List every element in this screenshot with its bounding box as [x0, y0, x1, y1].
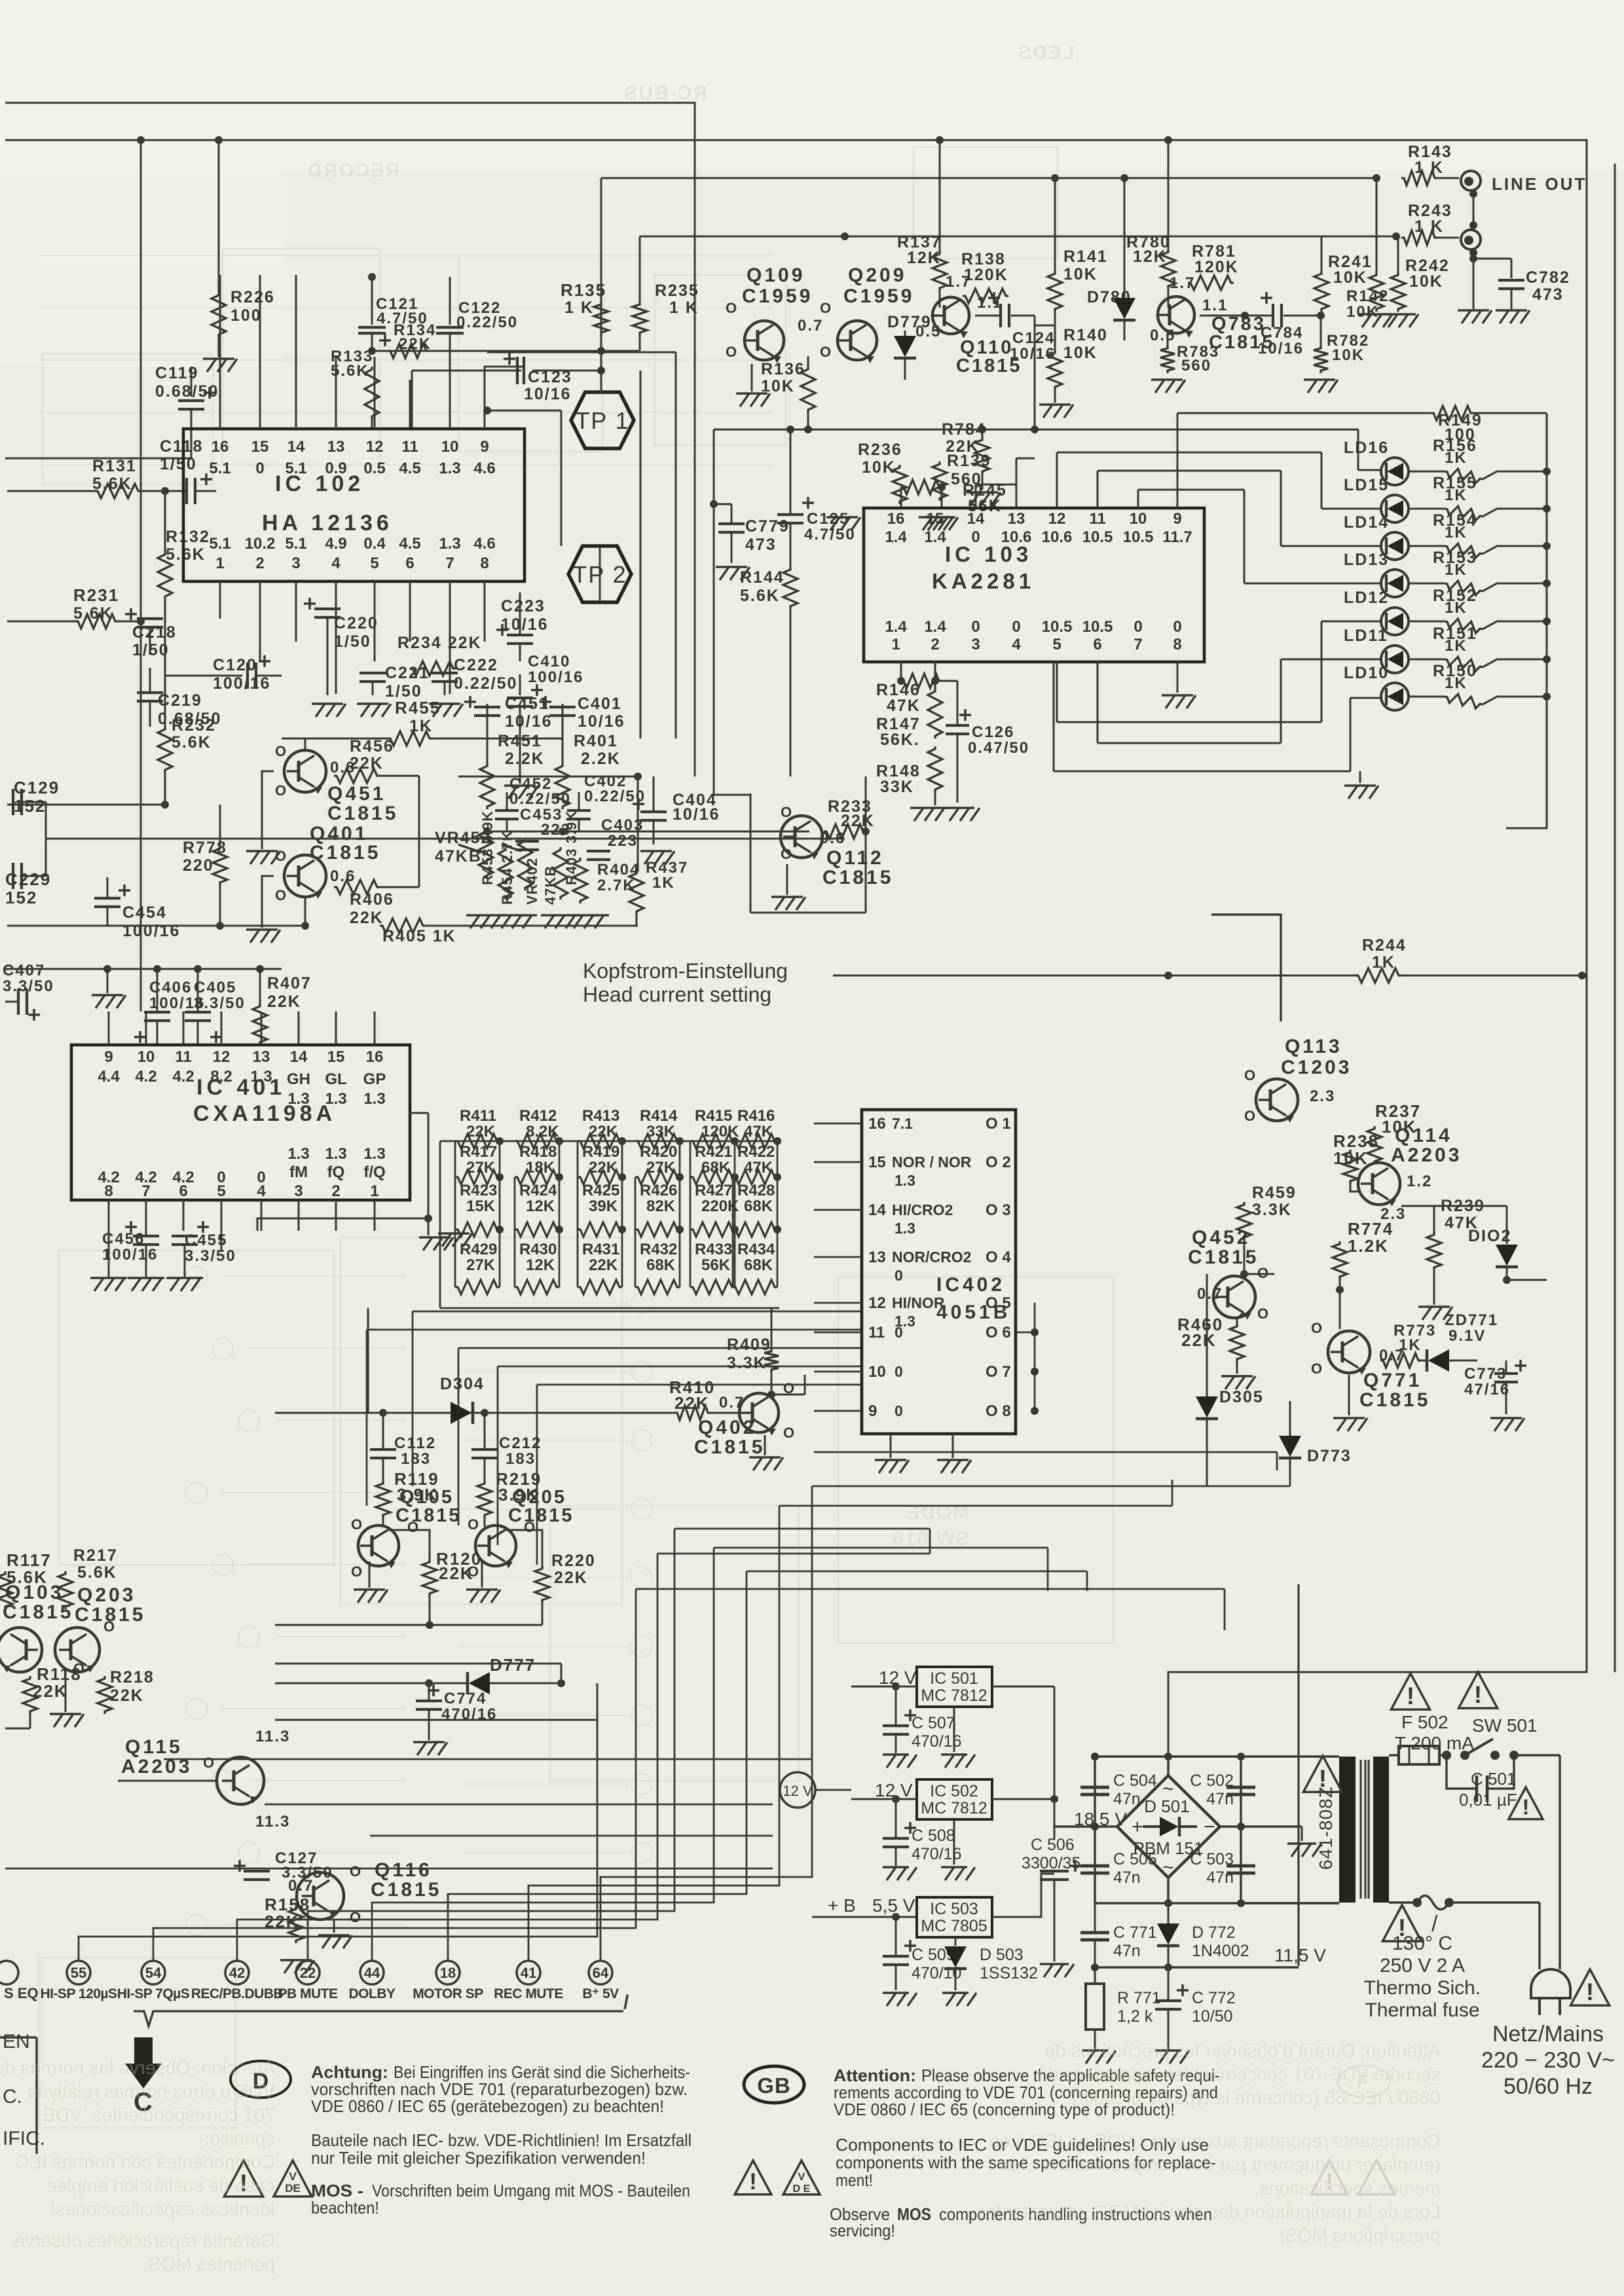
- svg-text:3.3/50: 3.3/50: [3, 977, 54, 995]
- node: [301, 922, 309, 930]
- svg-text:R231: R231: [73, 585, 119, 605]
- wire IC402 left stubs: [814, 1123, 862, 1125]
- svg-text:R407: R407: [267, 974, 312, 993]
- svg-text:13: 13: [868, 1248, 886, 1266]
- svg-text:9.1V: 9.1V: [1449, 1327, 1486, 1345]
- ground: [1359, 784, 1361, 786]
- svg-text:22K: 22K: [350, 754, 384, 773]
- svg-text:R426: R426: [640, 1182, 677, 1199]
- svg-text:1.3: 1.3: [325, 1090, 346, 1108]
- svg-text:C 504: C 504: [1113, 1772, 1157, 1790]
- svg-text:1 K: 1 K: [1414, 217, 1444, 236]
- svg-text:C223: C223: [501, 597, 545, 615]
- wire: [771, 1394, 805, 1396]
- svg-text:0.47/50: 0.47/50: [968, 739, 1029, 757]
- svg-text:LD15: LD15: [1344, 476, 1389, 494]
- wire: [675, 352, 677, 738]
- svg-text:2.7K: 2.7K: [597, 877, 636, 894]
- svg-text:1.7: 1.7: [946, 273, 971, 291]
- svg-text:14: 14: [287, 438, 305, 456]
- wire long bus 2854: [5, 1868, 773, 1870]
- svg-text:C1815: C1815: [1188, 1247, 1259, 1268]
- wire: [865, 776, 867, 913]
- ground: [145, 1277, 147, 1279]
- ground: [326, 702, 328, 704]
- svg-text:REC/PB.DUBB: REC/PB.DUBB: [191, 1986, 284, 2001]
- svg-text:560: 560: [1181, 357, 1211, 374]
- svg-text:REC MUTE: REC MUTE: [494, 1986, 563, 2001]
- connector pin 22: [296, 1961, 320, 1984]
- svg-text:50/60 Hz: 50/60 Hz: [1504, 2074, 1593, 2099]
- wire: [372, 350, 639, 352]
- svg-text:C 772: C 772: [1192, 1989, 1236, 2007]
- svg-text:~: ~: [1162, 1778, 1174, 1800]
- warning triangle pair mid: [735, 2160, 771, 2195]
- svg-text:4.2: 4.2: [172, 1068, 194, 1085]
- ground: [333, 1934, 335, 1936]
- svg-text:Composants repondant aux norme: Composants repondant aux normes VDE ou I…: [990, 2131, 1441, 2152]
- svg-text:MOTOR SP: MOTOR SP: [413, 1986, 483, 2001]
- svg-text:0.6: 0.6: [330, 867, 356, 885]
- node: [161, 487, 169, 495]
- svg-text:R236: R236: [858, 441, 902, 459]
- svg-text:C1203: C1203: [1281, 1057, 1352, 1078]
- svg-text:LD13: LD13: [1344, 551, 1389, 569]
- svg-text:10K: 10K: [862, 458, 896, 477]
- svg-text:1 K: 1 K: [564, 299, 594, 317]
- wire left stub: [5, 458, 46, 460]
- svg-text:14: 14: [290, 1048, 308, 1066]
- svg-text:1.4: 1.4: [924, 618, 946, 636]
- connector pin edge: [0, 1961, 18, 1984]
- wire: [275, 1719, 597, 1721]
- ground: [1167, 2049, 1169, 2051]
- svg-text:C1815: C1815: [310, 842, 380, 864]
- svg-text:10/16: 10/16: [1010, 345, 1056, 363]
- svg-text:10: 10: [868, 1363, 886, 1381]
- svg-text:−: −: [1204, 1816, 1215, 1838]
- svg-text:10.2: 10.2: [245, 535, 276, 553]
- svg-text:55: 55: [71, 1965, 86, 1981]
- svg-text:10/16: 10/16: [578, 712, 625, 731]
- svg-text:R427: R427: [695, 1182, 732, 1199]
- svg-text:O: O: [275, 782, 287, 799]
- svg-text:1.2K: 1.2K: [1348, 1236, 1389, 1256]
- svg-text:22: 22: [300, 1965, 316, 1981]
- svg-text:C 507: C 507: [912, 1714, 955, 1732]
- svg-text:R420: R420: [640, 1143, 677, 1161]
- svg-text:O: O: [351, 1516, 363, 1533]
- svg-text:7.1: 7.1: [892, 1115, 913, 1132]
- svg-text:+: +: [1132, 1816, 1143, 1838]
- svg-text:183: 183: [401, 1450, 431, 1468]
- svg-text:1/50: 1/50: [334, 632, 371, 651]
- svg-text:4.9: 4.9: [325, 535, 346, 553]
- svg-text:NOR / NOR: NOR / NOR: [892, 1154, 972, 1171]
- svg-text:VDE 0860 / IEC 65 (gerätebezog: VDE 0860 / IEC 65 (gerätebezogen) zu bea…: [311, 2096, 664, 2116]
- svg-text:R218: R218: [110, 1668, 155, 1686]
- svg-text:R406: R406: [350, 890, 394, 909]
- svg-text:C 771: C 771: [1113, 1923, 1157, 1942]
- ground: [938, 516, 940, 518]
- svg-text:Bauteile nach IEC- bzw. VDE-Ri: Bauteile nach IEC- bzw. VDE-Richtlinien!…: [311, 2130, 692, 2150]
- svg-text:68K: 68K: [744, 1197, 773, 1215]
- svg-text:5: 5: [370, 555, 378, 572]
- ground: [1166, 378, 1168, 380]
- ground: [64, 1713, 66, 1715]
- ground: [1176, 694, 1178, 696]
- svg-text:47n: 47n: [1113, 1942, 1141, 1960]
- svg-text:C219: C219: [158, 691, 202, 710]
- svg-text:7: 7: [141, 1182, 150, 1200]
- svg-text:C405: C405: [194, 979, 236, 996]
- svg-text:R430: R430: [519, 1241, 557, 1258]
- svg-text:0.4: 0.4: [363, 535, 386, 553]
- transistor Q114: [1358, 1163, 1400, 1205]
- svg-text:1K: 1K: [1445, 524, 1467, 541]
- svg-text:22K: 22K: [350, 909, 384, 927]
- wire: [140, 140, 142, 1011]
- svg-text:MC 7805: MC 7805: [921, 1917, 987, 1935]
- ground: [1053, 1963, 1055, 1965]
- wire bundle staircase: [79, 1761, 597, 1961]
- svg-text:DOLBY: DOLBY: [349, 1986, 396, 2001]
- wire: [851, 1686, 917, 1688]
- svg-text:4.5: 4.5: [399, 535, 420, 553]
- svg-text:C1815: C1815: [396, 1505, 461, 1526]
- svg-text:O 3: O 3: [986, 1201, 1011, 1219]
- svg-text:9: 9: [868, 1402, 877, 1420]
- wire: [1167, 1757, 1169, 1776]
- connector pin 41: [517, 1961, 540, 1984]
- wire mains right: [1559, 1755, 1560, 1969]
- warning triangle fuse: [1391, 1673, 1430, 1709]
- svg-text:Garantia reparaciones observe: Garantia reparaciones observe: [14, 2231, 275, 2251]
- node on bus C: [1051, 174, 1059, 182]
- svg-text:C 508: C 508: [912, 1827, 955, 1845]
- svg-text:R135: R135: [561, 280, 606, 300]
- svg-text:5.1: 5.1: [285, 460, 306, 477]
- wire: [108, 1231, 110, 1277]
- wire horizontals mid: [636, 1588, 1225, 1590]
- wire: [45, 802, 47, 876]
- svg-text:13: 13: [1008, 510, 1025, 528]
- ground: [443, 702, 445, 704]
- svg-text:S EQ: S EQ: [4, 1985, 39, 2001]
- svg-text:8: 8: [1173, 636, 1181, 653]
- ground: [895, 1753, 896, 1755]
- svg-text:1: 1: [215, 555, 224, 572]
- ground: [1373, 313, 1375, 315]
- svg-text:47n: 47n: [1113, 1790, 1141, 1808]
- svg-text:0.7: 0.7: [288, 1877, 314, 1895]
- ground: [1505, 1417, 1507, 1419]
- IC IC501 MC7812: [917, 1667, 992, 1707]
- svg-text:0.68/50: 0.68/50: [158, 710, 221, 728]
- svg-text:D E: D E: [793, 2183, 811, 2195]
- svg-text:R421: R421: [695, 1143, 732, 1161]
- svg-text:10/16: 10/16: [524, 385, 572, 403]
- svg-text:B⁺ 5V: B⁺ 5V: [582, 1986, 619, 2001]
- svg-text:11.3: 11.3: [255, 1813, 290, 1831]
- svg-text:Kopfstrom-Einstellung: Kopfstrom-Einstellung: [583, 959, 788, 983]
- svg-text:10.5: 10.5: [1082, 618, 1113, 636]
- svg-text:R454 2.7K: R454 2.7K: [499, 830, 515, 905]
- svg-text:16: 16: [868, 1115, 886, 1133]
- svg-text:F 502: F 502: [1401, 1712, 1449, 1732]
- transistor Q452: [1213, 1276, 1255, 1318]
- ground: [519, 784, 521, 786]
- svg-text:6: 6: [179, 1182, 187, 1200]
- svg-text:R431: R431: [582, 1241, 619, 1258]
- wire IC402 outputs: [1034, 1303, 1036, 1411]
- transistor Q402: [739, 1393, 779, 1432]
- svg-text:1.1: 1.1: [1202, 297, 1228, 314]
- svg-text:0.5: 0.5: [1150, 327, 1175, 344]
- svg-text:securite VDE 701 concernant le: securite VDE 701 concernant les reparati…: [1037, 2064, 1441, 2085]
- transistor Q116: [297, 1872, 344, 1920]
- wire pin9 up: [485, 367, 525, 380]
- svg-text:O: O: [103, 1618, 116, 1635]
- wire pin4 bus: [257, 1218, 428, 1231]
- svg-text:O: O: [203, 1755, 215, 1771]
- svg-text:R417: R417: [460, 1143, 497, 1161]
- connector pin 55: [67, 1961, 90, 1984]
- ground: [1433, 1305, 1435, 1307]
- svg-text:PB MUTE: PB MUTE: [278, 1986, 338, 2001]
- wire pin6 to LD11: [1097, 662, 1099, 743]
- svg-text:IC 502: IC 502: [930, 1782, 978, 1800]
- svg-text:22K: 22K: [589, 1256, 618, 1274]
- svg-text:10.6: 10.6: [1042, 528, 1073, 546]
- svg-text:10: 10: [138, 1048, 155, 1066]
- svg-text:IC402: IC402: [936, 1274, 1005, 1296]
- svg-text:GB: GB: [757, 2073, 791, 2098]
- ground: [371, 702, 373, 704]
- transistor Q771: [1328, 1331, 1370, 1373]
- svg-text:Q103: Q103: [5, 1582, 64, 1603]
- svg-text:C 506: C 506: [1031, 1836, 1075, 1854]
- svg-text:TP 1: TP 1: [575, 407, 629, 434]
- node 12V circle: [780, 1772, 815, 1808]
- svg-text:Lors de la manipulation des ci: Lors de la manipulation des circuits MOS…: [976, 2202, 1441, 2223]
- svg-text:Q114: Q114: [1395, 1125, 1452, 1146]
- svg-text:HI-SP 120µS: HI-SP 120µS: [40, 1986, 117, 2001]
- svg-text:R217: R217: [73, 1546, 118, 1565]
- svg-text:R424: R424: [519, 1182, 557, 1199]
- svg-text:47n: 47n: [1206, 1868, 1234, 1887]
- ground: [217, 357, 219, 359]
- svg-text:56K.: 56K.: [880, 731, 920, 749]
- svg-text:1.3: 1.3: [287, 1145, 309, 1163]
- svg-text:1.3: 1.3: [895, 1172, 915, 1189]
- svg-text:9: 9: [104, 1048, 113, 1066]
- svg-text:/: /: [623, 1992, 629, 2013]
- svg-text:Atencion: Observe las normas d: Atencion: Observe las normas de: [0, 2058, 275, 2079]
- svg-text:Q115: Q115: [125, 1736, 183, 1758]
- svg-text:10.6: 10.6: [1001, 528, 1032, 546]
- svg-text:22K: 22K: [267, 993, 301, 1011]
- svg-text:0: 0: [971, 618, 980, 636]
- wire verticals right of staircase: [929, 1529, 931, 1554]
- svg-text:LEDS: LEDS: [1017, 42, 1075, 64]
- svg-text:10K: 10K: [1063, 344, 1098, 362]
- svg-text:5.6K: 5.6K: [77, 1563, 117, 1582]
- svg-text:16: 16: [366, 1048, 384, 1066]
- transistor Q109: [745, 321, 784, 360]
- svg-text:10K: 10K: [1409, 272, 1443, 291]
- brace under connectors: [134, 2011, 623, 2026]
- svg-text:C124: C124: [1012, 329, 1055, 347]
- transistor Q105: [358, 1525, 399, 1566]
- svg-text:82K: 82K: [646, 1197, 676, 1215]
- wire top bus D: [640, 236, 1396, 238]
- svg-text:O 1: O 1: [986, 1115, 1011, 1133]
- svg-text:2.3: 2.3: [1310, 1087, 1335, 1105]
- svg-text:10/50: 10/50: [1192, 2007, 1233, 2026]
- svg-text:RECORD: RECORD: [306, 160, 399, 181]
- svg-text:HI/CRO2: HI/CRO2: [892, 1201, 953, 1218]
- svg-text:220 − 230 V~: 220 − 230 V~: [1481, 2048, 1615, 2073]
- transformer primary bar: [1373, 1757, 1389, 1903]
- wire right bus: [428, 1113, 430, 1218]
- svg-text:1.4: 1.4: [924, 528, 946, 546]
- marker GB oval: [744, 2066, 804, 2103]
- svg-text:0: 0: [1173, 618, 1181, 636]
- svg-text:C1815: C1815: [694, 1436, 765, 1458]
- grid vertical wires: [499, 1141, 501, 1287]
- svg-text:2: 2: [931, 636, 939, 653]
- svg-text:47n: 47n: [1113, 1868, 1141, 1887]
- svg-text:2: 2: [331, 1182, 340, 1200]
- svg-text:1.2: 1.2: [1407, 1173, 1432, 1190]
- svg-text:R136: R136: [761, 360, 805, 378]
- svg-text:10/16: 10/16: [1258, 340, 1304, 357]
- svg-text:R422: R422: [737, 1143, 775, 1161]
- svg-text:MOS: MOS: [897, 2204, 931, 2224]
- svg-text:3: 3: [294, 1182, 303, 1200]
- wire primary top: [1389, 1754, 1399, 1756]
- svg-text:spaniso:: spaniso:: [204, 2128, 275, 2149]
- wire long bus 2756: [265, 1804, 773, 1806]
- svg-text:100: 100: [231, 306, 262, 325]
- ground: [1318, 378, 1320, 380]
- svg-text:68K: 68K: [646, 1256, 676, 1274]
- svg-text:Q112: Q112: [826, 847, 884, 869]
- svg-text:1/50: 1/50: [160, 455, 197, 473]
- svg-text:1.7: 1.7: [1170, 274, 1195, 292]
- svg-text:10K: 10K: [1332, 346, 1365, 364]
- svg-text:O 4: O 4: [986, 1248, 1011, 1266]
- wire pin12 to LD15: [1056, 452, 1058, 508]
- svg-text:f/Q: f/Q: [363, 1163, 385, 1181]
- wire: [1241, 1825, 1302, 1827]
- svg-text:R226: R226: [231, 288, 275, 306]
- wire: [1469, 249, 1477, 257]
- svg-text:1.4: 1.4: [885, 618, 907, 636]
- warning triangle pair right-ghost: [1311, 2160, 1395, 2195]
- wire: [304, 738, 306, 750]
- svg-text:R415: R415: [695, 1107, 732, 1125]
- IC IC102 HA12136: [183, 429, 525, 581]
- svg-text:C407: C407: [3, 962, 45, 979]
- svg-text:1 K: 1 K: [669, 299, 699, 317]
- svg-text:nur Teile mit gleicher Spezifi: nur Teile mit gleicher Spezifikation ver…: [311, 2148, 646, 2168]
- svg-text:identicas especificaciones!: identicas especificaciones!: [50, 2199, 275, 2220]
- svg-text:4: 4: [1012, 636, 1021, 653]
- svg-text:MC 7812: MC 7812: [921, 1799, 987, 1817]
- svg-text:O 6: O 6: [986, 1324, 1011, 1341]
- wire pin10 to LD13: [1137, 490, 1139, 508]
- ground: [1510, 309, 1512, 311]
- svg-text:DIO2: DIO2: [1468, 1227, 1511, 1245]
- wire IC103 top pins: [975, 484, 977, 508]
- svg-text:O: O: [783, 1425, 796, 1441]
- svg-text:NOR/CRO2: NOR/CRO2: [892, 1248, 971, 1266]
- svg-text:2.2K: 2.2K: [505, 750, 545, 768]
- wire bundle to IC402: [413, 1311, 862, 1313]
- svg-text:0: 0: [971, 528, 980, 546]
- svg-text:R401: R401: [574, 732, 618, 750]
- svg-text:!: !: [1586, 1978, 1594, 2005]
- svg-text:100/16: 100/16: [102, 1246, 158, 1264]
- svg-text:O: O: [351, 1563, 363, 1580]
- test point TP1: [571, 392, 634, 448]
- svg-text:1.3: 1.3: [325, 1145, 346, 1163]
- svg-text:0: 0: [1012, 618, 1020, 636]
- svg-text:4.5: 4.5: [399, 460, 420, 477]
- svg-text:22K: 22K: [554, 1569, 588, 1587]
- svg-text:1.4: 1.4: [885, 528, 907, 546]
- svg-text:C1815: C1815: [822, 867, 893, 888]
- svg-text:prescriptions MOS!: prescriptions MOS!: [1279, 2225, 1441, 2246]
- svg-text:A2203: A2203: [1391, 1144, 1462, 1166]
- wire: [439, 1141, 441, 1308]
- svg-text:T 200 mA: T 200 mA: [1395, 1733, 1474, 1753]
- svg-text:C126: C126: [972, 723, 1014, 741]
- svg-text:7: 7: [445, 555, 454, 572]
- wire pin9 to R149: [1177, 413, 1179, 508]
- svg-text:O: O: [726, 344, 738, 360]
- ground: [655, 850, 657, 852]
- svg-text:R425: R425: [582, 1182, 619, 1199]
- svg-text:O 8: O 8: [986, 1402, 1011, 1420]
- connector pin 64: [589, 1961, 612, 1984]
- svg-text:10K: 10K: [1346, 303, 1379, 321]
- svg-text:O: O: [1311, 1320, 1323, 1336]
- wire: [599, 546, 601, 602]
- svg-text:4.6: 4.6: [473, 460, 495, 477]
- wire: [814, 1451, 1277, 1453]
- wire: [487, 831, 809, 833]
- svg-text:4.2: 4.2: [135, 1068, 157, 1085]
- svg-text:1.3: 1.3: [363, 1090, 385, 1108]
- svg-text:HI/NOR: HI/NOR: [892, 1294, 945, 1311]
- svg-text:HI-SP 7QµS: HI-SP 7QµS: [117, 1986, 190, 2001]
- svg-text:44: 44: [364, 1965, 380, 1981]
- wire: [382, 1518, 384, 1527]
- transistor Q401: [284, 855, 326, 897]
- svg-text:13: 13: [253, 1048, 270, 1066]
- svg-text:16: 16: [212, 438, 229, 456]
- svg-text:LD10: LD10: [1344, 664, 1389, 682]
- svg-text:223: 223: [608, 832, 638, 850]
- svg-text:0: 0: [1134, 618, 1142, 636]
- wire: [1469, 190, 1477, 198]
- svg-text:9: 9: [1173, 510, 1181, 528]
- svg-text:33K: 33K: [880, 778, 914, 796]
- wire: [219, 618, 221, 620]
